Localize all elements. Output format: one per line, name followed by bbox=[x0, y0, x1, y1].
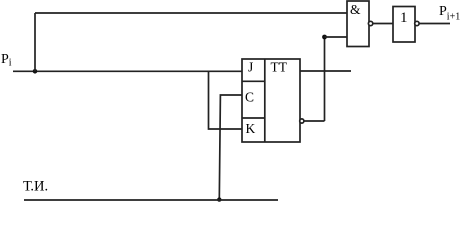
gate U2 output bubble bbox=[368, 21, 372, 25]
flip-flop U1 J/C cell divider bbox=[242, 80, 265, 82]
svg-text:&: & bbox=[350, 2, 361, 17]
wire: into NAND input B bbox=[325, 36, 348, 38]
svg-text:J: J bbox=[248, 60, 253, 75]
wire: clock bottom line bbox=[24, 199, 278, 201]
flip-flop U1 input column divider bbox=[264, 59, 266, 142]
flip-flop U1 C/K cell divider bbox=[242, 117, 265, 119]
svg-text:K: K bbox=[246, 121, 256, 136]
wire: riser up to NAND input B bbox=[324, 37, 326, 121]
wire: Pi+1 output lead bbox=[419, 23, 450, 25]
gate U3 output bubble bbox=[415, 21, 419, 25]
node: junction at NAND input B bbox=[322, 35, 327, 40]
wire: branch from Pi line down to K input bbox=[209, 71, 243, 129]
wire: Pi input horizontal run to J bbox=[13, 70, 242, 72]
wire: feedback top run to NAND input A bbox=[35, 12, 347, 14]
svg-text:1: 1 bbox=[400, 10, 408, 26]
svg-text:C: C bbox=[245, 90, 254, 105]
flip-flop U1 inverted output bubble bbox=[300, 119, 304, 123]
wire: Q output of flip-flop bbox=[300, 70, 351, 72]
wire: NAND output to inverter input bbox=[373, 23, 393, 25]
svg-text:Pi+1: Pi+1 bbox=[439, 4, 460, 23]
svg-text:Pi: Pi bbox=[1, 52, 12, 69]
node: junction of Pi line and feedback riser bbox=[33, 69, 38, 74]
wire: C input run down to clock line bbox=[219, 95, 242, 200]
svg-text:TT: TT bbox=[271, 60, 288, 75]
wire: inverted output to riser bbox=[304, 120, 325, 122]
gate U2 NAND body bbox=[347, 1, 369, 47]
node: junction of C riser and clock line bbox=[217, 197, 221, 201]
flip-flop U1 body (TT) bbox=[242, 59, 300, 142]
gate U3 inverter body bbox=[393, 7, 415, 43]
svg-text:Т.И.: Т.И. bbox=[23, 179, 48, 195]
wire: feedback vertical riser bbox=[34, 13, 36, 71]
